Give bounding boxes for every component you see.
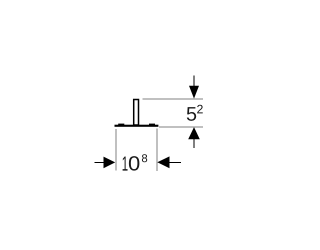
label 5 superscript 2	[197, 105, 203, 114]
label 10 digit 1	[123, 157, 128, 171]
dimension 5: down arrow with stem	[193, 76, 194, 87]
label 10 digit 0	[129, 156, 139, 171]
label 5	[187, 107, 196, 121]
extension line bottom-right (gray)	[159, 126, 203, 127]
extension line bottom-right vertical (gray)	[156, 129, 157, 171]
extension line bottom-left vertical (gray)	[115, 129, 116, 171]
right bump on plate	[149, 124, 155, 125]
dimension 10: right arrow with tail	[157, 156, 169, 168]
dimension 10: left arrow with tail	[94, 162, 103, 163]
label 10 superscript 8	[142, 154, 147, 162]
extension line top (gray)	[143, 99, 204, 100]
dimension 5: up arrow with stem	[188, 127, 200, 139]
base plate	[115, 125, 159, 127]
left bump on plate	[118, 124, 124, 125]
pin (stud) on base plate	[134, 100, 139, 126]
